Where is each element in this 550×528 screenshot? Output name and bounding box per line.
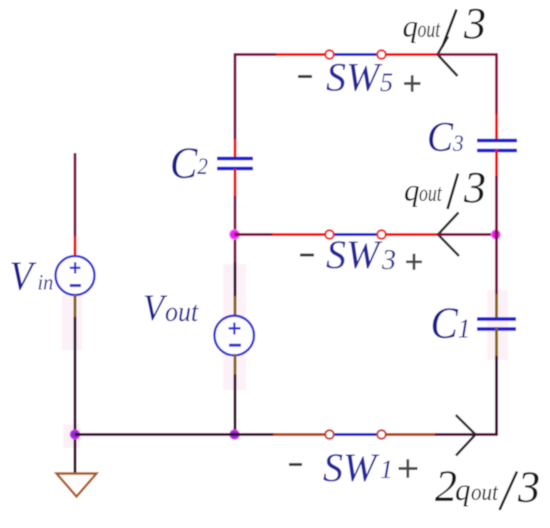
svg-text:q: q (404, 173, 420, 208)
label qout/3 top (403, 0, 487, 48)
wire olive above C1 (495, 294, 498, 319)
capacitor C1 (477, 319, 516, 329)
wire Vin upper red segment (74, 236, 77, 257)
wire red below C2 (234, 169, 237, 197)
wire bottom rail dark from node C (235, 433, 275, 436)
wire maroon node D down (495, 235, 498, 296)
svg-text:out: out (418, 15, 442, 42)
wire red above C2 (234, 139, 237, 158)
wire top-left corner (maroon) (235, 55, 277, 141)
capacitor C2 (217, 159, 253, 169)
switch SW5 left terminal (325, 50, 334, 59)
label minus of SW1 (289, 463, 302, 466)
label qout/3 middle (404, 163, 486, 212)
wire dark maroon to bottom-right corner (435, 433, 497, 435)
wire maroon from node B right (235, 233, 274, 236)
label plus of SW1 (399, 459, 418, 478)
Vout minus sign (229, 344, 241, 347)
wire dark from Vout to bottom node (234, 375, 237, 435)
current arrow qout/3 top (438, 37, 458, 77)
label 2qout/3 (435, 462, 540, 512)
wire red-brown into SW1 (273, 433, 326, 436)
switch SW1 right terminal (377, 430, 386, 439)
label C1 (431, 299, 471, 348)
wire maroon C3 to node D (495, 176, 498, 235)
svg-text:3: 3 (517, 463, 540, 512)
wire red from SW3 to arrow (386, 233, 439, 236)
svg-text:q: q (455, 472, 471, 507)
switch SW1 left terminal (325, 430, 334, 439)
wire red into SW5 (276, 53, 326, 56)
voltage source Vout circle (214, 316, 254, 356)
label C3 (427, 114, 464, 161)
wire dark to Vout (upper) (234, 262, 237, 297)
label Vout (143, 287, 200, 328)
label Vin (10, 253, 54, 299)
svg-text:out: out (419, 179, 443, 206)
wire olive below Vout (234, 355, 237, 376)
wire Vin below source (olive) (74, 295, 77, 319)
Vin plus sign (70, 262, 81, 273)
label plus of SW3 (406, 254, 422, 270)
svg-text:3: 3 (463, 163, 486, 212)
label plus of SW5 (404, 75, 421, 92)
wire olive above Vout (234, 296, 237, 317)
ground (57, 474, 97, 497)
wire maroon from arrow to top-right corner (437, 55, 497, 116)
capacitor C3 (477, 141, 517, 151)
Vout plus sign (229, 323, 241, 335)
wire dark C1 to bottom-right corner (495, 356, 498, 435)
wire red from SW5 to arrow (386, 53, 438, 56)
Vin minus sign (70, 284, 81, 287)
wire ground stub (74, 435, 77, 474)
switch SW3 right terminal (377, 230, 386, 239)
node B (middle column, mid row) (230, 230, 240, 240)
voltage source Vin circle (56, 256, 95, 295)
wire Vin to ground node (dark) (74, 317, 77, 435)
svg-text:2: 2 (435, 462, 457, 511)
label C2 (170, 139, 208, 188)
switch SW3 left terminal (325, 230, 334, 239)
node A (bottom left junction) (70, 430, 79, 439)
svg-text:q: q (403, 9, 419, 44)
current arrow 2qout/3 (456, 415, 476, 456)
wire red-brown from SW1 (386, 433, 437, 436)
wire olive below C1 (495, 328, 498, 357)
svg-text:out: out (471, 479, 499, 506)
wire bottom rail left (dark) (75, 433, 235, 436)
label minus of SW5 (298, 75, 312, 78)
svg-text:3: 3 (463, 0, 486, 48)
switch SW5 blade (blue) (335, 53, 378, 56)
wire red above C3 (495, 114, 498, 141)
node D (right column, mid row) (491, 230, 500, 239)
current arrow qout/3 middle (438, 213, 459, 257)
wire red below C3 (495, 150, 498, 177)
wire maroon through middle-left node (234, 196, 237, 263)
node C (middle column, bottom row) (230, 430, 239, 439)
switch SW5 right terminal (377, 50, 386, 59)
label minus of SW3 (300, 254, 314, 257)
switch SW1 blade (blue) (335, 433, 378, 436)
wire Vin top stub (maroon) (74, 153, 77, 237)
wire red into SW3 (272, 233, 326, 236)
switch SW3 blade (blue) (335, 233, 378, 236)
wire maroon from arrow to node D (437, 233, 497, 236)
